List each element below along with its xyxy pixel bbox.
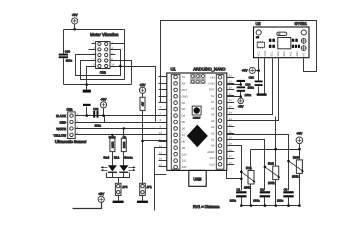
svg-text:XCL: XCL bbox=[290, 51, 293, 57]
svg-text:CN1: CN1 bbox=[66, 107, 72, 111]
svg-text:C3: C3 bbox=[284, 187, 288, 191]
wire +5V pot rail bbox=[251, 150, 300, 171]
resistor R2 220R Down bbox=[109, 136, 116, 152]
svg-text:D10: D10 bbox=[182, 153, 187, 156]
svg-text:A3: A3 bbox=[211, 126, 215, 129]
svg-text:USB: USB bbox=[193, 177, 202, 182]
svg-text:Down: Down bbox=[109, 136, 116, 139]
node pot1 wiper junction bbox=[240, 171, 243, 174]
svg-text:D6: D6 bbox=[182, 128, 186, 131]
wire motor pin8 loop bbox=[111, 61, 132, 85]
usb connector bbox=[189, 170, 206, 186]
node Down junction bbox=[111, 134, 113, 136]
svg-text:5V: 5V bbox=[211, 95, 214, 98]
svg-text:+5V: +5V bbox=[101, 97, 108, 101]
svg-text:100n: 100n bbox=[230, 198, 237, 202]
svg-text:A5: A5 bbox=[211, 114, 215, 117]
svg-text:U2: U2 bbox=[256, 21, 262, 26]
svg-text:C1: C1 bbox=[237, 187, 241, 191]
wire motor pin4 loop bbox=[76, 50, 121, 76]
svg-text:D4: D4 bbox=[182, 115, 186, 118]
svg-text:220R: 220R bbox=[123, 142, 126, 148]
connector JP1 bbox=[140, 183, 152, 195]
svg-text:TX: TX bbox=[182, 76, 186, 79]
pad column right bbox=[216, 75, 224, 170]
svg-text:RST: RST bbox=[209, 89, 215, 92]
op box U1 arduino nano bbox=[167, 67, 227, 171]
wire GND pin29 bbox=[227, 82, 241, 85]
svg-text:XDA: XDA bbox=[283, 51, 286, 57]
svg-text:RV3: RV3 bbox=[293, 155, 299, 159]
svg-text:RX: RX bbox=[182, 83, 186, 86]
wire LED cathodes join bbox=[107, 173, 130, 184]
wire INT to D2 loop bbox=[161, 21, 317, 103]
svg-text:A6: A6 bbox=[211, 107, 215, 110]
wire BLACK / D4 net bbox=[76, 115, 167, 117]
svg-text:DL1: DL1 bbox=[114, 156, 120, 160]
ground motor bbox=[83, 90, 91, 93]
arduino right pins bbox=[207, 74, 234, 166]
svg-text:GND: GND bbox=[208, 83, 214, 86]
node bus junctions bbox=[240, 204, 301, 207]
svg-text:AD0: AD0 bbox=[296, 51, 299, 57]
svg-text:220R: 220R bbox=[111, 142, 114, 148]
node GND junction bbox=[239, 83, 242, 86]
svg-text:BLACK: BLACK bbox=[56, 114, 66, 118]
svg-text:RESET: RESET bbox=[193, 116, 201, 119]
resistor R3 220R Up bbox=[121, 136, 126, 152]
potentiometer RV1 100k bbox=[241, 166, 255, 206]
svg-text:D3: D3 bbox=[182, 108, 186, 111]
svg-text:GY521: GY521 bbox=[295, 21, 308, 26]
connector CN1 ultrasonic bbox=[66, 107, 78, 138]
svg-text:3V3: 3V3 bbox=[210, 157, 215, 160]
wire GND pin down bbox=[264, 58, 266, 94]
wire A2 to pot3 wiper bbox=[227, 135, 289, 191]
node motor pin10 junction bbox=[119, 65, 122, 68]
power +5V pullup bbox=[139, 83, 146, 98]
wire 5V pin27 bbox=[227, 92, 241, 99]
svg-text:A0: A0 bbox=[211, 145, 215, 148]
reset button bbox=[192, 106, 201, 119]
power +5V ultrasonic bbox=[100, 97, 107, 116]
svg-text:Green: Green bbox=[124, 156, 133, 160]
wire motor +5V top rail bbox=[64, 29, 125, 31]
module pin labels bbox=[258, 51, 306, 57]
node Up junction bbox=[123, 127, 125, 129]
svg-text:100n: 100n bbox=[253, 198, 260, 202]
wire A0 to pot1 wiper bbox=[227, 146, 242, 191]
svg-text:C08: C08 bbox=[93, 107, 99, 111]
svg-text:C06: C06 bbox=[249, 76, 255, 80]
capacitor C06 100n bbox=[248, 76, 263, 94]
node D8 junction bbox=[141, 140, 144, 143]
svg-text:100k: 100k bbox=[244, 185, 251, 189]
svg-text:C2: C2 bbox=[260, 187, 264, 191]
power +5V pots bbox=[296, 131, 303, 159]
wire SDA to A4 bbox=[227, 58, 279, 121]
svg-text:RV1 = Distanza: RV1 = Distanza bbox=[193, 205, 220, 209]
svg-text:A7: A7 bbox=[211, 101, 215, 104]
power +5V gy521 bbox=[242, 67, 259, 73]
capacitor C04 100n bbox=[237, 83, 252, 97]
node pot2 feed junction bbox=[274, 148, 277, 151]
wire YELLOW / D7 net bbox=[76, 134, 167, 136]
wire motor pin9 to ground bbox=[87, 67, 96, 90]
ground JP1 bbox=[137, 196, 148, 204]
node 5V junction bbox=[239, 95, 242, 98]
svg-text:SDA: SDA bbox=[277, 51, 280, 57]
node +5V motor rail junction bbox=[73, 28, 76, 31]
wire motor pin1 stub bbox=[92, 43, 96, 45]
svg-text:RST: RST bbox=[182, 89, 188, 92]
svg-text:100k: 100k bbox=[268, 181, 275, 185]
module box U2 GY521 bbox=[254, 21, 310, 58]
arduino left pins bbox=[159, 74, 188, 169]
wire motor pin10 to D5 bbox=[111, 67, 156, 122]
svg-text:D2: D2 bbox=[182, 102, 186, 105]
svg-text:4k7: 4k7 bbox=[141, 101, 144, 106]
wire motor right vertical from rail to pin2 and rail2 bbox=[111, 30, 125, 80]
svg-text:Red: Red bbox=[104, 156, 110, 160]
wire motor pin7 loop bbox=[81, 61, 125, 80]
LED DL1 red bbox=[101, 152, 117, 173]
svg-text:RV1: RV1 bbox=[246, 166, 252, 170]
svg-text:+5V: +5V bbox=[238, 105, 243, 109]
connector CN3 motor header bbox=[93, 41, 115, 74]
wire SCL to A5 bbox=[227, 58, 273, 115]
svg-text:100k: 100k bbox=[292, 174, 299, 178]
ground C04 bbox=[237, 80, 246, 82]
wire A1 to pot2 wiper bbox=[227, 140, 265, 191]
connector JP3 bbox=[115, 183, 127, 195]
power +5V C04 bbox=[238, 98, 244, 109]
ground JP3 bbox=[113, 196, 124, 204]
wire GND spur bbox=[155, 174, 167, 176]
node pot2 wiper junction bbox=[264, 166, 267, 169]
svg-text:INT: INT bbox=[302, 52, 305, 57]
capacitor C08 100n bbox=[93, 107, 101, 128]
wire bottom bus bbox=[242, 205, 300, 207]
svg-text:+5V: +5V bbox=[140, 83, 147, 87]
wire R1 down to D8 net and JP1 bbox=[142, 111, 144, 184]
svg-text:SCL: SCL bbox=[270, 51, 273, 57]
pad column left bbox=[171, 75, 180, 170]
svg-text:100n: 100n bbox=[245, 93, 252, 97]
capacitor C1 100n bbox=[230, 187, 247, 205]
svg-text:VCC: VCC bbox=[258, 51, 261, 57]
svg-text:D5: D5 bbox=[182, 121, 186, 124]
svg-text:A4: A4 bbox=[211, 120, 215, 123]
svg-text:Motor Vibration: Motor Vibration bbox=[90, 32, 119, 37]
svg-text:GND: GND bbox=[264, 51, 267, 57]
wire Up resistor to white net bbox=[123, 129, 125, 139]
svg-text:A1: A1 bbox=[211, 139, 215, 142]
svg-text:Ultrasonic Sensor: Ultrasonic Sensor bbox=[55, 139, 87, 144]
svg-text:100n: 100n bbox=[277, 198, 284, 202]
wire VCC down bbox=[258, 58, 260, 81]
node +5V rail junction bbox=[298, 148, 301, 151]
node VCC 5V junction bbox=[257, 69, 260, 72]
wire motor bottom rail bbox=[64, 84, 132, 86]
node gnd bus junction bbox=[240, 178, 243, 181]
svg-text:ARDUINO_NANO: ARDUINO_NANO bbox=[193, 67, 225, 72]
node motor ground junction bbox=[85, 83, 88, 86]
wire motor pin6 stub bbox=[111, 54, 116, 56]
wire motor pin3 stub bbox=[89, 49, 96, 51]
svg-text:AREF: AREF bbox=[207, 151, 215, 154]
svg-text:YELLOW: YELLOW bbox=[53, 133, 66, 137]
wire D9 net bbox=[155, 148, 167, 211]
node pot3 wiper junction bbox=[287, 160, 290, 163]
svg-text:JP1: JP1 bbox=[147, 185, 153, 189]
svg-text:+5V: +5V bbox=[72, 13, 79, 17]
svg-text:RED: RED bbox=[60, 120, 67, 124]
svg-text:+5V: +5V bbox=[297, 131, 304, 135]
wire D8 net bbox=[143, 140, 167, 142]
mcu diamond bbox=[187, 125, 208, 148]
svg-text:RV2: RV2 bbox=[268, 162, 274, 166]
svg-text:100n: 100n bbox=[66, 59, 73, 63]
svg-text:+5V: +5V bbox=[98, 192, 105, 196]
svg-text:D9: D9 bbox=[182, 147, 186, 150]
power +5V bottom left bbox=[73, 192, 105, 209]
svg-text:JP3: JP3 bbox=[122, 185, 128, 189]
ICSP header bbox=[191, 74, 206, 84]
svg-text:+5V: +5V bbox=[242, 69, 249, 73]
svg-text:D12: D12 bbox=[182, 166, 187, 169]
svg-text:D8: D8 bbox=[182, 140, 186, 143]
svg-text:D13: D13 bbox=[209, 163, 214, 166]
wire arduino gnd to bus bbox=[227, 171, 242, 179]
wire Down resistor to yellow net bbox=[112, 135, 114, 139]
svg-text:VIN: VIN bbox=[210, 76, 215, 79]
wire RED / D5 net bbox=[76, 122, 167, 124]
LED DL2 green bbox=[119, 152, 135, 173]
wire SDA spur vertical bbox=[275, 117, 277, 150]
wire motor left outer vertical bbox=[63, 30, 65, 85]
svg-text:A2: A2 bbox=[211, 132, 215, 135]
svg-text:D7: D7 bbox=[182, 134, 186, 137]
capacitor C2 100n bbox=[253, 187, 270, 205]
svg-text:C04: C04 bbox=[245, 83, 251, 87]
svg-text:100n: 100n bbox=[95, 124, 102, 128]
potentiometer RV2 100k bbox=[265, 162, 280, 206]
svg-text:GND: GND bbox=[182, 95, 188, 98]
svg-text:CN2: CN2 bbox=[100, 71, 106, 75]
potentiometer RV3 100k bbox=[289, 155, 304, 205]
svg-text:D11: D11 bbox=[182, 160, 187, 163]
resistor R1 4k7 bbox=[140, 97, 145, 110]
capacitor C03 100n bbox=[59, 50, 73, 63]
svg-text:U1: U1 bbox=[171, 67, 177, 72]
wire WHITE / D6 net bbox=[76, 128, 167, 130]
module graphics bbox=[256, 30, 307, 51]
svg-text:C03: C03 bbox=[65, 50, 71, 54]
wire RED jog bbox=[104, 116, 106, 123]
power +5V motor bbox=[72, 13, 79, 29]
capacitor C3 100n bbox=[277, 187, 294, 205]
ground ultrasonic bbox=[83, 104, 91, 117]
ground gy521 bbox=[257, 93, 267, 95]
svg-text:WHITE: WHITE bbox=[56, 127, 66, 131]
